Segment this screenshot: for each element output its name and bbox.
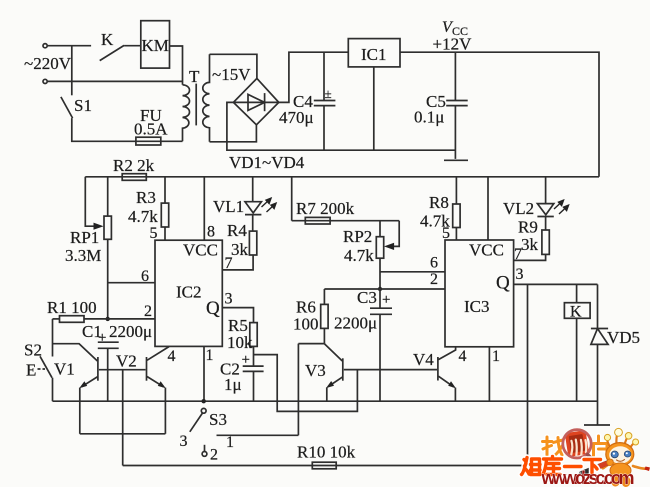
wire IC3 pin 1: [488, 347, 490, 401]
transistor V2: [146, 357, 148, 381]
wire V3 V4 base link: [344, 369, 437, 371]
svg-text:VD5: VD5: [607, 328, 640, 347]
wire live branch to S1: [71, 46, 73, 96]
svg-text:R2 2k: R2 2k: [113, 156, 155, 175]
capacitor C4: [323, 52, 325, 100]
svg-text:4: 4: [168, 348, 176, 365]
wire node to IC3 pin 2: [324, 288, 445, 290]
svg-text:6: 6: [430, 255, 438, 272]
svg-text:T: T: [189, 67, 200, 86]
transformer T primary winding: [183, 85, 190, 142]
watermark pen: [577, 459, 614, 476]
svg-text:RP2: RP2: [343, 227, 372, 246]
wire secondary bottom to bridge: [210, 125, 257, 142]
svg-text:6: 6: [141, 268, 149, 285]
svg-text:IC2: IC2: [176, 283, 202, 302]
svg-text:Q: Q: [206, 298, 220, 319]
svg-text:KM: KM: [142, 36, 169, 55]
wire IC3 pin 6: [380, 271, 445, 273]
svg-text:+: +: [382, 292, 390, 308]
switch K arm: [100, 45, 124, 60]
IC IC2: [155, 240, 222, 346]
wire V1 V2 base link: [99, 369, 146, 371]
svg-text:S1: S1: [74, 96, 92, 115]
svg-text:+: +: [98, 330, 106, 346]
transformer T secondary winding: [203, 54, 210, 142]
wire IC2 pin 2: [108, 318, 155, 320]
resistor R5 10k: [250, 323, 257, 347]
wire S3 contact1 riser: [297, 344, 299, 436]
wire IC1 ground pin: [373, 67, 375, 150]
svg-text:10k: 10k: [227, 333, 253, 352]
watermark char zhao: [543, 437, 564, 456]
svg-text:1: 1: [206, 347, 214, 364]
VCC distribution rail: [85, 176, 599, 178]
node C3 junction: [378, 287, 382, 291]
bottom common rail: [53, 400, 598, 402]
wire IC3 Q output: [514, 283, 598, 285]
svg-text:VL2: VL2: [503, 199, 534, 218]
resistor R10 10k: [123, 465, 528, 467]
resistor R4 3k: [249, 231, 256, 255]
svg-text:3k: 3k: [521, 235, 539, 254]
ground: [584, 424, 610, 426]
svg-text:K: K: [101, 30, 114, 49]
svg-text:±: ±: [325, 86, 332, 101]
wire C2 node to V3 V4 base: [254, 355, 358, 412]
svg-text:4.7k: 4.7k: [344, 246, 374, 265]
svg-text:V3: V3: [305, 361, 326, 380]
S3 contact 1: [217, 434, 299, 436]
wire live top: [47, 45, 91, 47]
node V3 collector: [298, 343, 324, 345]
wire RP1 wiper feed: [85, 177, 100, 226]
svg-text:V1: V1: [54, 360, 75, 379]
svg-text:4.7k: 4.7k: [128, 207, 158, 226]
AC terminal top: [43, 44, 47, 48]
svg-text:7: 7: [514, 246, 522, 263]
svg-text:0.1μ: 0.1μ: [414, 108, 444, 127]
watermark char yi: [565, 465, 582, 468]
svg-text:RP1: RP1: [70, 228, 99, 247]
wire S1 to fuse: [72, 118, 183, 141]
diode VD5: [597, 284, 599, 328]
wire R9 to IC3 pin 7: [514, 254, 546, 260]
svg-text:S2: S2: [24, 341, 42, 360]
wire IC2 pin 6: [108, 282, 155, 284]
svg-text:V4: V4: [413, 350, 434, 369]
VL1 light arrows: [262, 198, 277, 212]
svg-text:2: 2: [144, 303, 152, 320]
watermark char ku: [543, 457, 562, 475]
S3 contact 2: [204, 445, 206, 452]
wire R4 to IC2 pin 7: [222, 255, 253, 270]
svg-text:VD1~VD4: VD1~VD4: [229, 153, 305, 172]
svg-text:100: 100: [293, 315, 319, 334]
resistor R8 4.7k: [455, 177, 457, 204]
svg-text:R1 100: R1 100: [47, 298, 97, 317]
svg-text:R10 10k: R10 10k: [297, 443, 356, 462]
bridge rectifier VD1~VD4: [233, 78, 278, 124]
svg-text:~15V: ~15V: [212, 65, 251, 84]
svg-text:VL1: VL1: [213, 197, 244, 216]
svg-text:S3: S3: [209, 410, 227, 429]
svg-text:3: 3: [180, 433, 188, 450]
wire bridge minus rail: [227, 102, 456, 150]
wire K to KM: [124, 45, 141, 47]
svg-text:4: 4: [459, 348, 467, 365]
node R1 C1 junction: [106, 317, 110, 321]
watermark text weikuyixia: [522, 457, 601, 476]
transistor V4: [437, 357, 439, 381]
svg-text:3: 3: [516, 266, 524, 283]
switch S2: [52, 319, 54, 357]
svg-text:R7 200k: R7 200k: [296, 199, 355, 218]
wire IC3 top pin: [487, 177, 489, 240]
relay K: [576, 284, 578, 302]
svg-text:Q: Q: [496, 273, 510, 294]
wire +12V output: [400, 52, 599, 177]
svg-text:3k: 3k: [231, 240, 249, 259]
svg-text:V2: V2: [116, 352, 137, 371]
svg-text:K: K: [570, 304, 582, 321]
svg-text:~220V: ~220V: [24, 54, 72, 73]
AC terminal bottom: [43, 79, 47, 83]
svg-text:VCC: VCC: [469, 241, 504, 260]
switch S1 arm: [61, 97, 73, 118]
svg-text:IC3: IC3: [464, 297, 490, 316]
capacitor C2 1u: [243, 365, 264, 367]
svg-text:8: 8: [207, 224, 215, 241]
fuse FU 0.5A: [136, 137, 161, 145]
svg-text:470μ: 470μ: [279, 108, 314, 127]
svg-text:0.5A: 0.5A: [134, 120, 168, 139]
svg-text:C3: C3: [357, 288, 377, 307]
svg-text:2200μ: 2200μ: [109, 322, 152, 341]
wire Q to R10: [527, 284, 529, 465]
IC IC3: [445, 240, 514, 347]
svg-text:1: 1: [226, 434, 234, 451]
wire V1 V2 emitter link: [80, 433, 166, 435]
transistor V3: [324, 344, 342, 361]
capacitor C3 2200u: [379, 289, 381, 308]
capacitor C1 2200u: [98, 341, 119, 343]
VL2 light arrows: [554, 200, 569, 214]
svg-text:R4: R4: [227, 221, 247, 240]
wire IC2 pin 3 to R5: [222, 308, 253, 323]
svg-text:2200μ: 2200μ: [334, 314, 377, 333]
wire IC2 pin 1: [203, 346, 205, 401]
watermark char pian: [594, 436, 608, 456]
node S3 common: [202, 399, 206, 403]
resistor R1 100: [53, 318, 60, 320]
watermark char wei: [522, 458, 541, 475]
resistor R2 2k: [122, 174, 146, 181]
watermark char xia: [584, 460, 601, 476]
svg-text:www.dzsc.com: www.dzsc.com: [541, 468, 635, 487]
wire secondary top to bridge: [210, 54, 257, 78]
svg-text:R8: R8: [429, 193, 449, 212]
transformer T core: [195, 84, 197, 126]
potentiometer RP1 3.3M: [107, 177, 109, 216]
watermark magnifier chip: [565, 430, 589, 457]
wire neutral: [47, 80, 182, 82]
resistor R9 3k: [542, 230, 549, 254]
LED VL1: [252, 177, 254, 202]
wire base node to R10: [122, 370, 124, 466]
svg-text:3: 3: [225, 291, 233, 308]
watermark mascot: [603, 428, 650, 487]
resistor R7 200k: [291, 177, 293, 221]
svg-text:3.3M: 3.3M: [65, 246, 101, 265]
svg-text:VCC: VCC: [183, 241, 218, 260]
wire KM to transformer: [170, 46, 183, 85]
svg-text:IC1: IC1: [361, 45, 387, 64]
wire bridge plus output: [279, 52, 349, 102]
svg-text:2: 2: [210, 447, 218, 464]
transistor V1: [53, 344, 98, 361]
watermark logo: [522, 428, 650, 487]
wire RP2 wiper feed: [388, 221, 400, 247]
svg-text:7: 7: [225, 255, 233, 272]
wire IC2 pin 8: [203, 177, 205, 240]
switch S3: [201, 408, 206, 413]
capacitor C5: [454, 52, 456, 100]
svg-text:+: +: [242, 352, 250, 368]
svg-text:R9: R9: [518, 218, 538, 237]
svg-text:2: 2: [430, 271, 438, 288]
potentiometer RP2 4.7k: [379, 221, 381, 237]
resistor R6 100: [323, 289, 325, 304]
relay coil KM: [141, 21, 170, 68]
power ground: [444, 159, 468, 161]
svg-text:R3: R3: [136, 188, 156, 207]
RP1 wiper arrow: [94, 223, 104, 230]
svg-text:1μ: 1μ: [224, 375, 242, 394]
svg-text:+12V: +12V: [433, 35, 473, 54]
svg-text:E: E: [26, 361, 36, 380]
LED VL2: [545, 177, 547, 204]
svg-text:1: 1: [492, 348, 500, 365]
regulator IC1: [348, 39, 400, 67]
resistor R3 4.7k: [164, 177, 166, 203]
RP2 wiper arrow: [384, 243, 394, 250]
